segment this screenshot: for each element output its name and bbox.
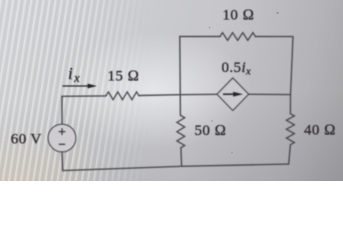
current arrow ix [63, 85, 90, 87]
dust speck [209, 27, 211, 29]
wire bottom [63, 164, 289, 171]
svg-text:10 Ω: 10 Ω [223, 8, 255, 24]
wire left vertical bottom [61, 152, 64, 171]
voltage source V 60V circle [48, 124, 76, 152]
svg-text:60 V: 60 V [11, 131, 42, 147]
wire middle right of diamond [249, 93, 291, 95]
wire top left segment [180, 36, 220, 38]
wire left vertical top [61, 96, 63, 124]
wire middle 15ohm to diamond [139, 94, 217, 95]
resistor R 40ohm [286, 114, 294, 145]
svg-text:50 Ω: 50 Ω [195, 123, 227, 139]
dust speck [231, 152, 233, 154]
svg-text:40 Ω: 40 Ω [304, 122, 336, 138]
wire 50ohm bottom lead [180, 148, 183, 167]
wire right vertical [290, 37, 293, 114]
wire top-loop left vertical [179, 37, 182, 116]
dust speck [277, 12, 279, 14]
resistor R 15ohm [106, 92, 139, 100]
svg-text:0.5ix: 0.5ix [222, 60, 252, 78]
voltage source minus sign [59, 143, 65, 145]
voltage source plus sign [59, 128, 66, 135]
svg-text:ix: ix [68, 64, 80, 85]
resistor R 10ohm [220, 33, 255, 41]
dependent source arrow [223, 93, 235, 95]
wire middle left of 15ohm [62, 95, 106, 97]
wire right vertical bottom [289, 145, 291, 164]
svg-text:15 Ω: 15 Ω [108, 69, 140, 85]
dependent source diamond 0.5ix [217, 78, 249, 110]
dust speck [211, 120, 213, 122]
resistor R 50ohm [177, 116, 185, 148]
wire top right segment [255, 36, 293, 38]
